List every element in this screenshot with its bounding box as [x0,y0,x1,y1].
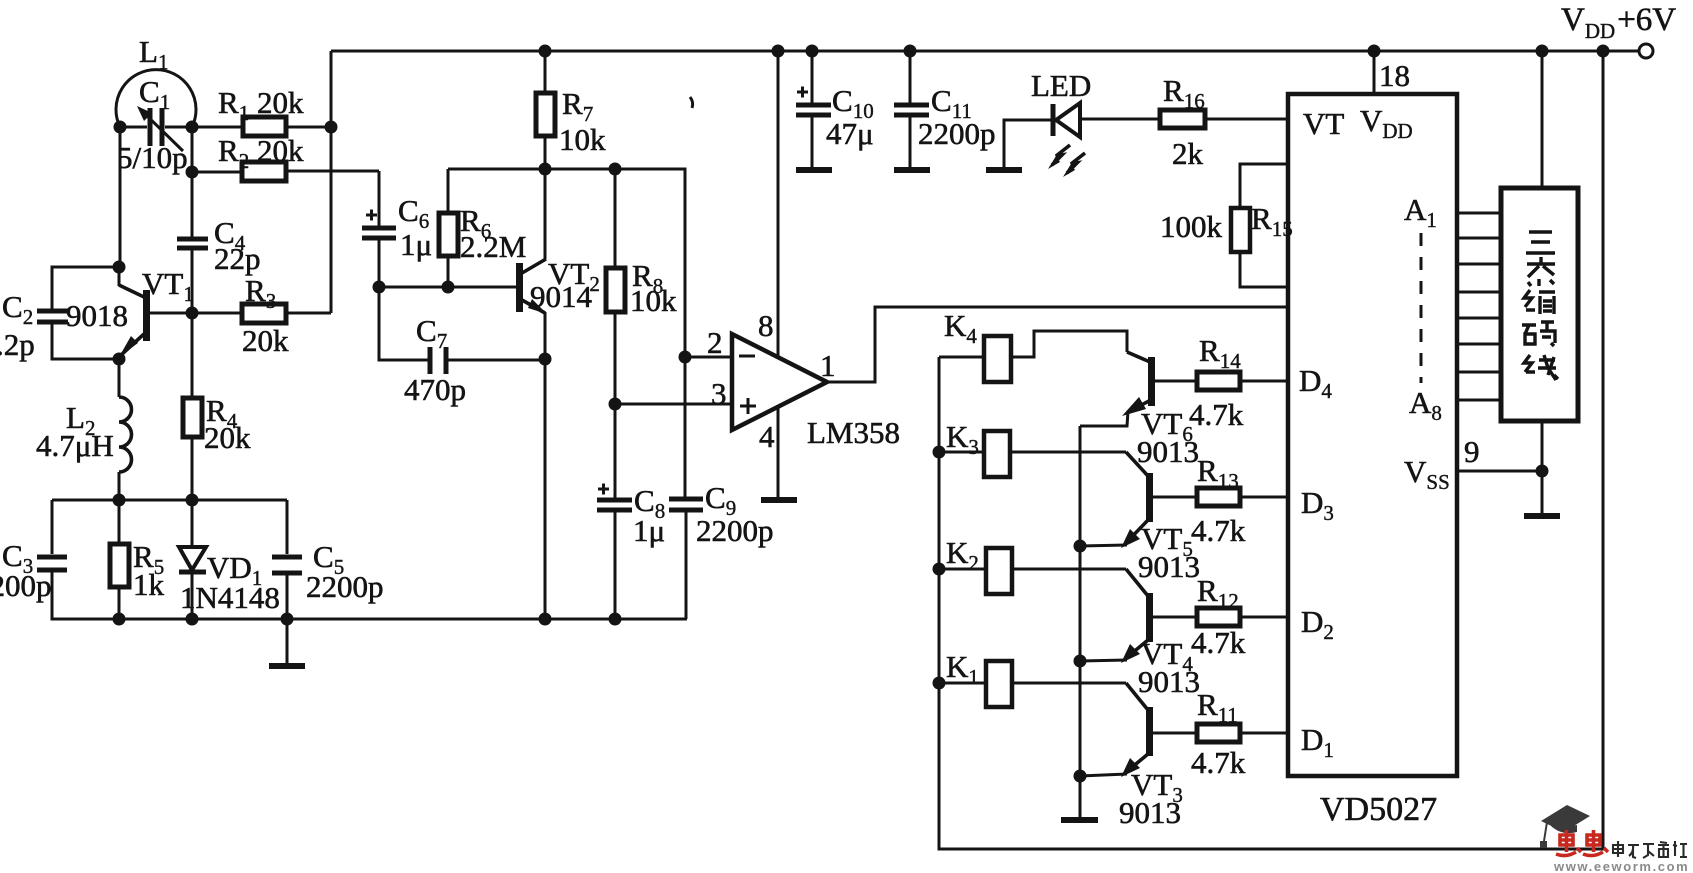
svg-text:4.7k: 4.7k [1191,745,1246,780]
transistor VT6 9013 [1080,352,1197,426]
ground: below C10 [796,167,832,173]
wire: C2 bottom to emitter node [52,324,119,359]
wire: encoder box bottom to VSS node [1541,421,1544,471]
wire: VT2 base row y287 [379,286,516,289]
inductor L2 [119,397,132,472]
wire: bottom ground row [52,618,687,621]
watermark logo graduation cap [1540,805,1590,848]
node: junction rail/op-amp pin8 [772,45,785,58]
wire: collector to C2 [52,267,119,309]
ground: LED cathode [986,167,1022,173]
svg-text:2.2M: 2.2M [460,229,526,264]
wire: pin2 lead [685,356,731,359]
capacitor C2 plates [37,311,68,322]
svg-text:2: 2 [707,325,723,360]
ground: common emitters [1061,817,1098,823]
switch K1 [939,661,1126,707]
resistor R2 [192,162,379,181]
wire: op-amp output to VD5027 [825,307,1288,382]
wire: common emitter line [1079,426,1082,818]
op-amp U1 LM358 triangle [732,334,827,430]
transistor VT5 9013 [1080,452,1197,548]
IC U2 VD5027 package [1288,94,1457,776]
resistor R11 [1197,724,1288,742]
wire: VDD +6V top rail [331,50,1638,53]
ground: below C5 [269,619,305,666]
resistor R16 [1160,110,1288,128]
node: K3 tap [933,446,946,459]
node: rail/pin18 [1368,45,1381,58]
watermark chongchong red characters [1556,830,1608,856]
svg-text:R1 20k: R1 20k [218,85,304,125]
svg-text:2200p: 2200p [306,569,384,604]
wire: pin 18 VDD lead [1373,51,1376,94]
wire: switch common line to VDD [939,51,1603,849]
node: K2 tap [933,563,946,576]
svg-text:9018: 9018 [66,298,128,333]
node: R4/VD1 junction [186,494,199,507]
wire: encoder box VDD drop [1541,51,1544,188]
svg-text:1k: 1k [133,567,165,602]
node: L1/C1 left [114,121,127,134]
char: tai [1527,257,1555,286]
transistor VT2 9014 [516,169,547,619]
switch K2 [939,548,1126,594]
node: VSS junction [1536,465,1549,478]
resistor R1 [192,117,331,136]
capacitor C11 [894,51,929,167]
transistor VT1 9018 [119,267,192,397]
resistor R14 [1197,372,1288,390]
node: VT1 collector junction [113,261,126,274]
capacitor C3 plates [37,557,67,570]
char: ma [1522,322,1555,346]
svg-text:9013: 9013 [1138,549,1200,584]
wire: C3 bottom to ground row [52,572,119,619]
node: bottom row junctions [113,613,126,626]
wire: op-amp pin4 vertical [777,407,780,498]
node: VT2 emitter / C7 junction [539,353,552,366]
svg-text:9014: 9014 [530,279,593,314]
resistor R6 [439,169,458,287]
char: xian [1524,355,1558,380]
svg-text:1N4148: 1N4148 [180,580,280,615]
svg-text:9013: 9013 [1137,434,1199,469]
svg-text:10k: 10k [630,283,677,318]
transistor VT4 9013 [1080,569,1197,663]
node: L1/C1 right [186,121,199,134]
svg-text:VT: VT [1303,106,1344,141]
capacitor C4 plates [177,239,208,248]
op-amp plus symbol [740,398,756,414]
node: L2/R5 junction [113,494,126,507]
node: rail/right drop [1597,45,1610,58]
resistor R5 [110,500,129,619]
node: R7 bottom junction [539,163,552,176]
wire: right column node down through C4 chain [191,127,194,500]
node: VT4 emitter junction [1074,655,1087,668]
wire: pin3 lead [615,403,731,406]
svg-text:LED: LED [1031,68,1091,103]
svg-text:1μ: 1μ [400,227,432,262]
node: VT1 base junction [186,307,199,320]
capacitor C1 trimmer plates [120,108,192,146]
svg-text:470p: 470p [404,372,466,407]
node: junction rail/C10 [806,45,819,58]
ground: op-amp pin4 [761,497,797,503]
capacitor C9 [669,357,703,619]
op-amp minus symbol [739,355,755,358]
wire: left column down to VT1 collector [119,127,122,267]
svg-text:4.7k: 4.7k [1189,397,1244,432]
switch K4 [939,331,1127,382]
node: VT5 emitter junction [1074,540,1087,553]
svg-text:1μ: 1μ [633,513,665,548]
wire: A1-A8 pin lines to encoder box [1457,213,1501,400]
wire: rail left drop to R1/R3 column [330,51,333,313]
svg-text:22p: 22p [214,241,261,276]
capacitor C10 electrolytic [796,51,831,167]
capacitor C5 [272,500,302,619]
svg-text:4.7k: 4.7k [1191,513,1246,548]
capacitor C7 [379,287,545,374]
wire: C3 branch [51,500,54,554]
node: R6 bottom junction [442,281,455,294]
node: R8 top junction [609,163,622,176]
svg-text:2k: 2k [1172,136,1204,171]
svg-text:1: 1 [820,348,836,383]
resistor R4 [183,398,202,437]
capacitor C1 trimmer arrow [137,106,183,151]
svg-text:VDD+6V: VDD+6V [1561,2,1676,43]
ground: VSS [1524,471,1560,516]
wire: op-amp pin8 vertical [777,51,780,357]
LED with light arrows [1004,103,1160,177]
A1..A8 dashed separator [1420,233,1423,383]
svg-text:20k: 20k [242,323,289,358]
svg-text:3: 3 [711,376,727,411]
terminal: +6V open circle [1639,44,1653,58]
capacitor C8 electrolytic [597,484,632,620]
stray ink mark [690,97,693,108]
svg-text:2200p: 2200p [918,116,996,151]
resistor R3 [192,304,331,323]
node: K1 tap [933,677,946,690]
wire: VSS pin 9 lead [1457,470,1542,473]
node: op-amp pin3 junction [609,398,622,411]
svg-text:100k: 100k [1160,209,1223,244]
char: san [1526,232,1555,253]
tri-state encoder line box [1501,188,1578,421]
svg-text:VD5027: VD5027 [1320,791,1437,828]
resistor R8 [606,169,625,498]
watermark text dianzi xiazaizhan (drawn strokes) [1613,841,1687,858]
svg-text:9: 9 [1464,434,1480,469]
wire: R2 right drop to C6 [378,171,381,226]
node: VT3 emitter junction [1074,770,1087,783]
node: VT1 emitter junction [113,353,126,366]
node: junction rail/C11 [904,45,917,58]
wire: node row y500 [52,499,287,502]
ground: below C11 [894,167,930,173]
svg-text:4: 4 [759,419,775,454]
transistor VT3 9013 [1080,683,1197,777]
svg-text:LM358: LM358 [807,415,900,450]
switch K3 [939,431,1126,477]
resistor R13 [1197,488,1288,506]
node: junction rail/R7 [539,45,552,58]
svg-text:.2p: .2p [0,327,35,362]
inductor L1 antenna loop [116,70,196,127]
node: R2 left junction [186,166,199,179]
node: R1 right junction [325,121,338,134]
resistor R7 [536,51,555,169]
capacitor C6 electrolytic [362,210,396,288]
svg-text:20k: 20k [204,420,251,455]
node: op-amp pin2 junction [679,351,692,364]
label tri-state encoder chinese characters (drawn strokes) [1522,232,1558,380]
svg-text:www.eeworm.com: www.eeworm.com [1553,859,1689,873]
svg-text:4.7μH: 4.7μH [36,428,114,463]
wire: L2 bottom to node row [118,472,121,500]
svg-text:5/10p: 5/10p [117,140,188,175]
svg-text:10k: 10k [559,122,606,157]
node: rail/encoder drop [1536,45,1549,58]
svg-text:8: 8 [758,308,774,343]
svg-text:47μ: 47μ [826,116,874,151]
svg-text:2200p: 2200p [0,568,52,603]
node: C6/C7 junction [373,281,386,294]
char: bian [1524,290,1555,314]
svg-text:18: 18 [1379,58,1410,93]
svg-text:R2 20k: R2 20k [218,133,304,173]
resistor R15 100k [1231,164,1288,287]
svg-text:2200p: 2200p [696,513,774,548]
diode VD1 1N4148 [179,500,206,619]
wire: node row y169 (R7/R6/R8/VT2 collector) [448,169,685,357]
svg-text:4.7k: 4.7k [1191,625,1246,660]
resistor R12 [1197,608,1288,626]
svg-text:9013: 9013 [1119,795,1181,830]
svg-text:9013: 9013 [1138,664,1200,699]
